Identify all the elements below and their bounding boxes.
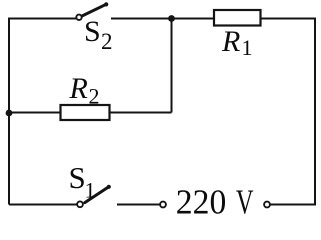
svg-text:S: S xyxy=(84,15,101,48)
svg-text:220: 220 xyxy=(176,183,227,217)
svg-text:R: R xyxy=(69,72,88,105)
svg-text:2: 2 xyxy=(89,84,100,109)
svg-text:S: S xyxy=(69,160,86,195)
svg-text:1: 1 xyxy=(85,178,96,203)
svg-text:R: R xyxy=(221,25,240,58)
svg-text:1: 1 xyxy=(242,35,253,60)
svg-text:V: V xyxy=(236,183,254,217)
svg-text:2: 2 xyxy=(101,29,113,54)
